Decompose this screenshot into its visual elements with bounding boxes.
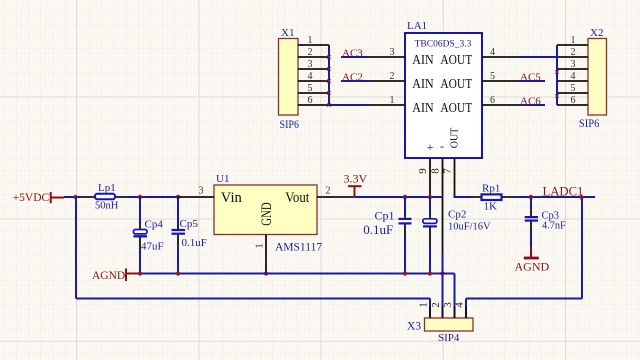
svg-text:5: 5: [490, 71, 495, 82]
LA1 pin 2: [369, 71, 405, 82]
svg-text:5: 5: [571, 83, 576, 94]
svg-text:4: 4: [490, 47, 495, 58]
U1 pin 1: [254, 235, 267, 274]
svg-text:2: 2: [571, 47, 576, 58]
X1 pin 1: [298, 35, 329, 46]
svg-text:AC6: AC6: [520, 95, 541, 107]
capacitor Cp1: [399, 197, 412, 274]
junction at left drop: [73, 195, 77, 199]
wire Rp1 to LADC1: [516, 196, 595, 198]
X1 pin 4: [298, 71, 329, 82]
connector X2: [588, 39, 607, 116]
svg-text:AOUT: AOUT: [440, 53, 472, 68]
wire net AC6: [519, 104, 546, 106]
connector X3: [425, 318, 474, 331]
svg-text:+5VDC: +5VDC: [13, 192, 50, 204]
no-ERC marks X2: [555, 70, 558, 97]
svg-text:LADC1: LADC1: [543, 184, 584, 198]
svg-text:3.3V: 3.3V: [344, 172, 368, 186]
svg-text:AIN: AIN: [412, 101, 433, 116]
svg-text:1: 1: [254, 243, 266, 249]
power port 3.3V: [344, 172, 368, 198]
svg-text:4: 4: [454, 302, 466, 308]
wire bottom right run: [466, 298, 582, 300]
LA1 pin 1: [369, 95, 405, 106]
svg-text:4: 4: [571, 71, 576, 82]
svg-text:SIP6: SIP6: [579, 118, 600, 130]
svg-text:U1: U1: [216, 173, 229, 185]
svg-text:0.1uF: 0.1uF: [363, 222, 393, 237]
svg-text:9: 9: [417, 168, 429, 174]
svg-text:AGND: AGND: [515, 260, 550, 274]
LA1 pin 8: [430, 158, 443, 255]
capacitor Cp4: [133, 197, 147, 274]
wire X2 bus vertical: [556, 45, 558, 105]
LA1 pin 6: [482, 95, 519, 106]
resistor Rp1: [471, 194, 516, 200]
wire LA1 pin7 to Rp1: [455, 195, 472, 197]
svg-text:SIP6: SIP6: [280, 119, 300, 131]
svg-text:X2: X2: [590, 27, 603, 39]
LA1 row1 text: [412, 53, 472, 68]
svg-text:AC5: AC5: [520, 71, 541, 83]
capacitor Cp5: [172, 197, 186, 274]
ground port AGND left: [92, 269, 140, 283]
svg-text:5: 5: [308, 83, 313, 94]
ground AGND right: [515, 247, 550, 274]
svg-text:1: 1: [418, 302, 430, 308]
junction Cp4 top: [138, 195, 142, 199]
LA1 row2 text: [412, 77, 472, 92]
svg-text:X3: X3: [407, 321, 421, 333]
wire LA1 pin8 down: [442, 254, 444, 318]
wire net AC5: [519, 80, 546, 82]
svg-text:AIN: AIN: [412, 53, 433, 68]
wire agnd corner to X3 pin3: [454, 274, 456, 319]
svg-text:2: 2: [326, 186, 331, 197]
svg-text:3: 3: [442, 302, 454, 308]
wire +5VDC to Lp1: [64, 196, 80, 198]
LA1 pin 9: [417, 158, 430, 195]
junction Cp1 top: [403, 195, 407, 199]
svg-text:Cp1: Cp1: [374, 209, 394, 223]
wire LA1 pin4 to X2: [519, 56, 558, 58]
svg-text:6: 6: [308, 95, 313, 106]
wire X3 pin4 up: [465, 299, 467, 319]
svg-text:AC3: AC3: [342, 47, 363, 59]
wire net AC3: [341, 56, 369, 58]
svg-text:AC2: AC2: [342, 71, 363, 83]
svg-text:6: 6: [571, 95, 576, 106]
svg-text:2: 2: [390, 71, 395, 82]
X3 pin 3: [442, 302, 455, 318]
svg-text:OUT: OUT: [450, 128, 461, 149]
svg-text:4: 4: [308, 71, 313, 82]
wire left drop: [75, 197, 77, 299]
svg-text:3: 3: [571, 59, 576, 70]
junction Cp3 top: [529, 195, 533, 199]
svg-text:Vin: Vin: [221, 190, 243, 206]
LA1 pin 7: [442, 158, 455, 195]
svg-text:Cp2: Cp2: [448, 209, 466, 221]
svg-text:+: +: [427, 140, 434, 154]
junction Cp4 bottom: [138, 271, 142, 275]
wire Lp1 to U1: [128, 196, 181, 198]
X1 pin 5: [298, 83, 329, 94]
power port +5VDC: [13, 192, 64, 204]
svg-text:4.7nF: 4.7nF: [542, 220, 566, 231]
svg-text:10uF/16V: 10uF/16V: [448, 222, 491, 233]
X2 pin 2: [557, 47, 588, 58]
svg-text:X1: X1: [281, 27, 294, 39]
svg-text:Rp1: Rp1: [482, 183, 500, 195]
svg-text:0.1uF: 0.1uF: [182, 237, 207, 249]
X3 pin 4: [454, 302, 467, 318]
X1 pin 3: [298, 59, 329, 70]
port tick LADC1: [579, 196, 584, 198]
svg-text:Cp5: Cp5: [180, 218, 199, 230]
svg-text:6: 6: [490, 95, 495, 106]
U1 pin 2: [317, 186, 354, 198]
LA1 pin 4: [482, 47, 519, 58]
svg-text:AMS1117: AMS1117: [275, 242, 322, 254]
svg-text:SIP4: SIP4: [438, 332, 460, 344]
junction Cp2 bottom: [428, 271, 432, 275]
junction U1 gnd: [264, 271, 268, 275]
capacitor Cp3: [525, 197, 538, 247]
svg-text:8: 8: [430, 168, 442, 174]
wire bottom left run: [76, 298, 430, 300]
X2 pin 6: [557, 95, 588, 106]
X2 pin 3: [557, 59, 588, 70]
inductor Lp1: [80, 194, 128, 199]
svg-text:GND: GND: [259, 202, 275, 225]
svg-text:LA1: LA1: [407, 20, 427, 32]
wire LADC1 drop: [581, 197, 583, 299]
X2 pin 5: [557, 83, 588, 94]
op-amp U1 LA1 body: [405, 33, 482, 158]
svg-text:AOUT: AOUT: [440, 101, 472, 116]
svg-text:3: 3: [390, 47, 395, 58]
X1 pin 6: [298, 95, 329, 106]
svg-text:AOUT: AOUT: [440, 77, 472, 92]
svg-text:Lp1: Lp1: [98, 182, 116, 194]
X1 pin 2: [298, 47, 329, 58]
wire AGND rail: [137, 273, 455, 275]
svg-text:1: 1: [571, 35, 576, 46]
svg-text:1: 1: [308, 35, 313, 46]
U1 pin 3: [178, 186, 215, 198]
junction Cp2 top: [428, 195, 432, 199]
X2 pin 1: [557, 35, 588, 46]
svg-text:47uF: 47uF: [141, 241, 164, 253]
LA1 row3 text: [412, 101, 472, 116]
svg-text:2: 2: [430, 302, 442, 308]
wire X1 pin6 to LA1 pin1: [329, 104, 369, 106]
junction pin8 agnd: [440, 271, 444, 275]
svg-text:1K: 1K: [484, 201, 498, 213]
connector X1: [279, 39, 299, 116]
svg-text:TBC06DS_3.3: TBC06DS_3.3: [415, 40, 472, 50]
regulator U1: [214, 185, 317, 235]
svg-text:7: 7: [442, 168, 454, 174]
LA1 pin 5: [482, 71, 519, 82]
wire net AC2: [341, 80, 369, 82]
LA1 pin 3: [369, 47, 405, 58]
svg-text:50nH: 50nH: [95, 201, 119, 212]
svg-text:AIN: AIN: [412, 77, 433, 92]
X3 pin 1: [418, 302, 431, 318]
junction Cp5 bottom: [176, 271, 180, 275]
no-ERC marks X1: [327, 55, 330, 106]
svg-text:-: -: [440, 139, 444, 153]
svg-text:3: 3: [308, 59, 313, 70]
capacitor Cp2: [423, 197, 437, 274]
svg-text:2: 2: [308, 47, 313, 58]
X2 pin 4: [557, 71, 588, 82]
svg-text:AGND: AGND: [92, 270, 125, 282]
junction Cp5 top: [176, 195, 180, 199]
junction Cp1 bottom: [403, 271, 407, 275]
wire 3.3V rail: [355, 196, 442, 198]
svg-text:1: 1: [390, 95, 395, 106]
svg-text:3: 3: [199, 186, 204, 197]
svg-text:Vout: Vout: [285, 190, 309, 206]
wire X1 bus vertical: [328, 45, 330, 105]
X3 pin 2: [430, 302, 443, 318]
wire X3 pin1 up: [429, 299, 431, 319]
svg-text:Cp4: Cp4: [145, 219, 164, 231]
